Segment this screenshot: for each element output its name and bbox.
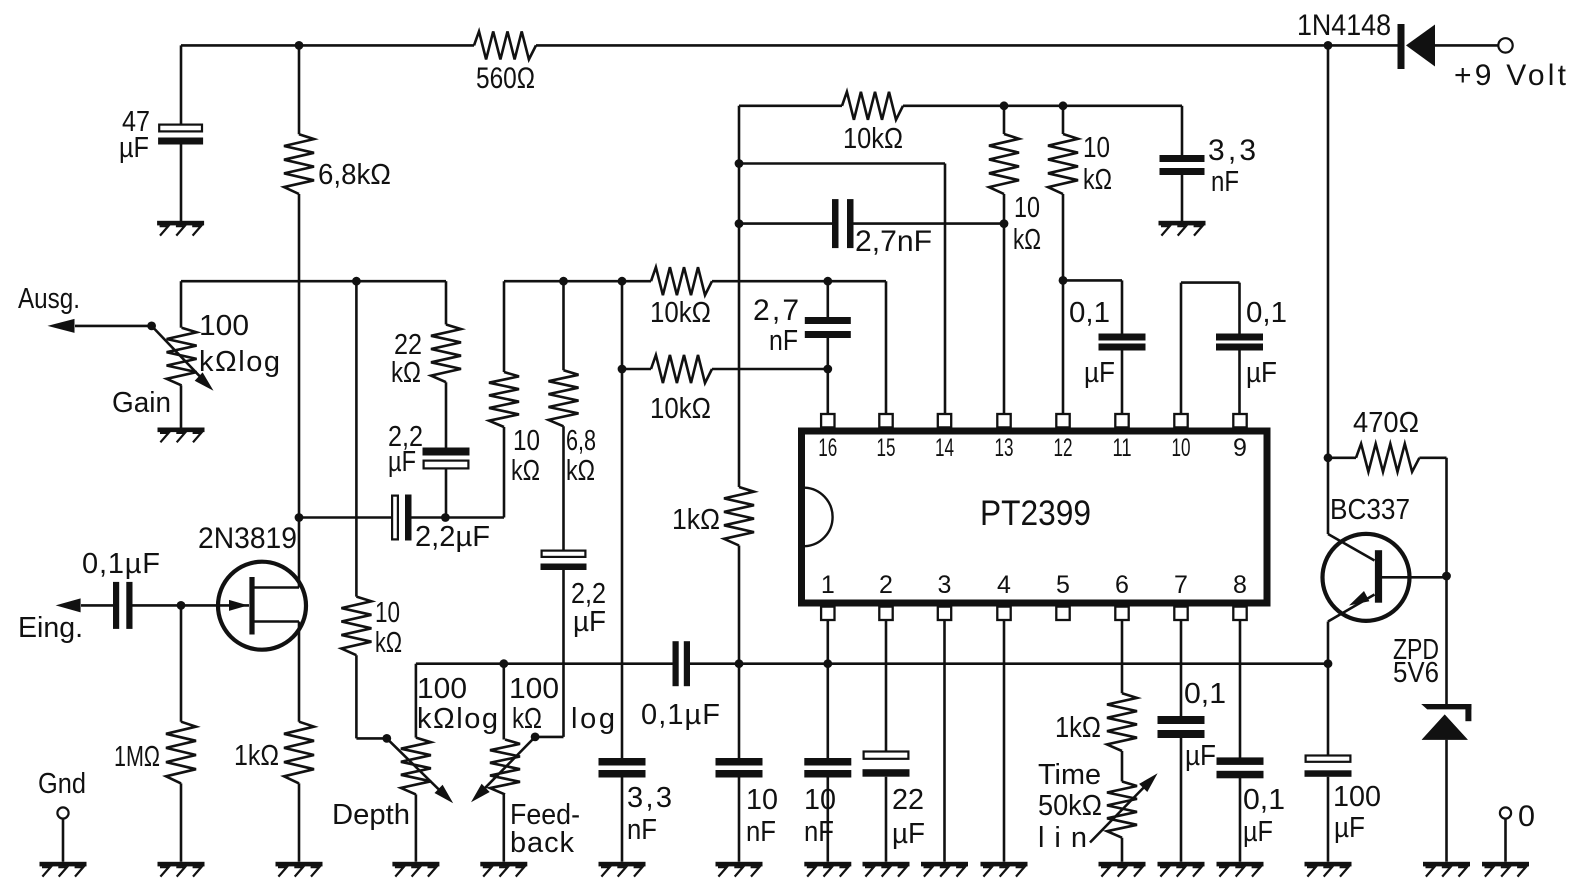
svg-text:0: 0: [1518, 800, 1535, 833]
svg-text:10kΩ: 10kΩ: [650, 297, 711, 329]
svg-text:16: 16: [818, 434, 837, 462]
svg-text:+9 Volt: +9 Volt: [1454, 59, 1567, 92]
svg-text:µF: µF: [1246, 357, 1277, 389]
svg-text:10kΩ: 10kΩ: [843, 123, 903, 155]
svg-text:14: 14: [935, 434, 954, 462]
svg-text:µF: µF: [1334, 812, 1365, 844]
svg-text:kΩlog: kΩlog: [417, 703, 498, 735]
svg-text:Gnd: Gnd: [38, 768, 86, 800]
svg-text:10: 10: [375, 597, 400, 629]
svg-text:1N4148: 1N4148: [1297, 9, 1391, 42]
svg-text:3,3: 3,3: [627, 782, 672, 814]
svg-text:470Ω: 470Ω: [1353, 407, 1419, 439]
svg-text:4: 4: [997, 571, 1011, 599]
svg-text:1kΩ: 1kΩ: [234, 740, 279, 772]
svg-text:BC337: BC337: [1330, 494, 1410, 526]
svg-text:kΩlog: kΩlog: [199, 346, 280, 378]
svg-text:0,1µF: 0,1µF: [641, 699, 720, 731]
svg-text:3: 3: [938, 571, 952, 599]
svg-text:8: 8: [1233, 571, 1247, 599]
svg-text:10: 10: [804, 784, 836, 816]
svg-text:0,1: 0,1: [1184, 678, 1226, 710]
svg-text:0,1: 0,1: [1069, 297, 1110, 329]
svg-text:Ausg.: Ausg.: [18, 283, 80, 315]
svg-text:0,1: 0,1: [1243, 784, 1285, 816]
svg-text:10kΩ: 10kΩ: [650, 393, 711, 425]
svg-text:µF: µF: [388, 446, 416, 478]
svg-text:µF: µF: [1243, 816, 1273, 848]
svg-text:0,1: 0,1: [1246, 297, 1287, 329]
svg-text:2N3819: 2N3819: [198, 522, 297, 555]
svg-text:Gain: Gain: [112, 387, 171, 419]
svg-text:Eing.: Eing.: [18, 612, 83, 644]
svg-text:7: 7: [1174, 571, 1188, 599]
svg-text:PT2399: PT2399: [980, 494, 1091, 533]
svg-text:100: 100: [417, 673, 467, 705]
svg-text:100: 100: [509, 673, 559, 705]
svg-text:1kΩ: 1kΩ: [672, 504, 720, 536]
svg-text:0,1µF: 0,1µF: [82, 548, 160, 580]
svg-text:10: 10: [1014, 192, 1040, 224]
svg-text:µF: µF: [1084, 357, 1115, 389]
svg-text:kΩ: kΩ: [391, 357, 421, 389]
svg-text:kΩ: kΩ: [512, 703, 542, 735]
svg-text:15: 15: [877, 434, 896, 462]
svg-text:1kΩ: 1kΩ: [1055, 712, 1101, 744]
svg-text:kΩ: kΩ: [511, 455, 540, 487]
svg-text:nF: nF: [769, 325, 798, 357]
svg-text:kΩ: kΩ: [1013, 224, 1041, 256]
svg-text:kΩ: kΩ: [566, 455, 595, 487]
svg-text:10: 10: [1172, 434, 1191, 462]
svg-text:Depth: Depth: [332, 799, 410, 831]
svg-text:10: 10: [746, 784, 778, 816]
svg-text:22: 22: [892, 784, 924, 816]
svg-text:µF: µF: [573, 606, 606, 638]
svg-text:2: 2: [879, 571, 893, 599]
svg-text:1MΩ: 1MΩ: [114, 741, 160, 773]
svg-text:Time: Time: [1038, 759, 1101, 791]
svg-text:2,7: 2,7: [753, 294, 799, 327]
svg-text:10: 10: [1083, 132, 1110, 164]
svg-text:µF: µF: [1185, 740, 1216, 772]
svg-text:5: 5: [1056, 571, 1070, 599]
svg-text:11: 11: [1113, 434, 1132, 462]
svg-text:6,8: 6,8: [566, 425, 596, 457]
svg-text:100: 100: [1333, 781, 1381, 813]
svg-text:nF: nF: [804, 816, 834, 848]
svg-text:kΩ: kΩ: [375, 627, 402, 659]
svg-text:nF: nF: [746, 816, 776, 848]
svg-text:2,7nF: 2,7nF: [855, 225, 932, 258]
svg-text:12: 12: [1054, 434, 1073, 462]
svg-text:µF: µF: [892, 818, 925, 850]
svg-text:nF: nF: [1211, 166, 1239, 198]
svg-text:kΩ: kΩ: [1083, 164, 1112, 196]
svg-text:10: 10: [513, 425, 540, 457]
svg-text:13: 13: [995, 434, 1014, 462]
svg-text:6: 6: [1115, 571, 1129, 599]
svg-text:5V6: 5V6: [1393, 657, 1439, 689]
svg-text:560Ω: 560Ω: [476, 62, 535, 95]
svg-text:2,2µF: 2,2µF: [415, 521, 490, 553]
svg-text:1: 1: [821, 571, 835, 599]
svg-text:100: 100: [199, 310, 249, 342]
svg-text:6,8kΩ: 6,8kΩ: [318, 159, 391, 191]
svg-text:µF: µF: [119, 132, 149, 164]
svg-text:9: 9: [1233, 434, 1247, 462]
svg-text:back: back: [510, 827, 575, 859]
svg-text:3,3: 3,3: [1208, 134, 1256, 167]
svg-text:50kΩ: 50kΩ: [1038, 790, 1102, 822]
svg-text:nF: nF: [627, 814, 657, 846]
